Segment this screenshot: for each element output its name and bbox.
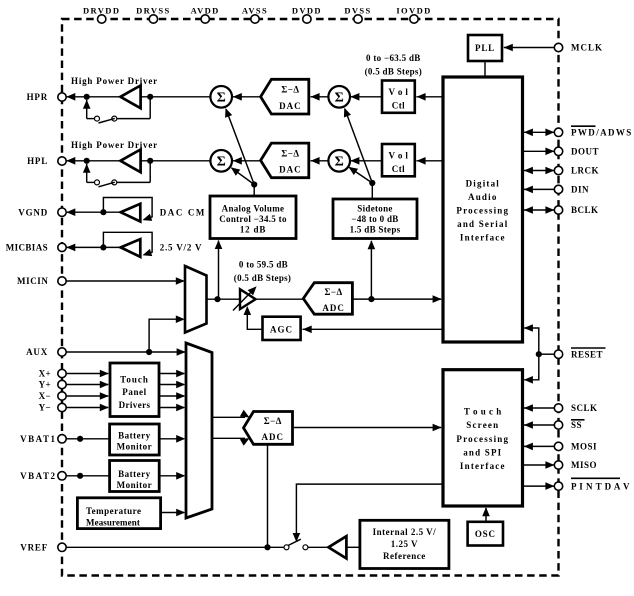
pin MCLK: [554, 43, 603, 53]
wire digital block to Vol Ctl 2: [416, 157, 443, 165]
wire VBAT1 to battery monitor 1: [62, 436, 110, 442]
wire audio ADC output to digital block: [352, 295, 441, 303]
svg-text:Y−: Y−: [39, 403, 51, 413]
svg-text:12 dB: 12 dB: [240, 225, 266, 235]
wire summer S2R to DAC2: [310, 157, 328, 165]
svg-text:Temperature: Temperature: [86, 506, 142, 516]
box Vol Ctl 2: [382, 144, 415, 176]
pin DRVSS: [136, 6, 171, 24]
box AGC: [263, 317, 301, 340]
wire mic path to analog volume control: [215, 240, 223, 299]
wire PGA output to audio ADC: [256, 298, 304, 300]
buffer VREF: [328, 536, 346, 558]
box touch panel drivers: [110, 363, 159, 417]
buffer DAC CM: [121, 204, 206, 222]
summer S1L: [210, 86, 232, 108]
svg-text:Σ−Δ: Σ−Δ: [281, 85, 299, 95]
svg-text:2.5 V/2 V: 2.5 V/2 V: [160, 243, 203, 253]
summer S2R: [328, 150, 350, 172]
svg-text:SS: SS: [571, 420, 582, 430]
svg-text:HPL: HPL: [27, 156, 48, 166]
svg-text:Ctl: Ctl: [392, 164, 405, 174]
pin Y+: [39, 380, 67, 390]
switch SW3 reference select: [284, 539, 328, 550]
svg-text:MOSI: MOSI: [571, 442, 597, 452]
pin DIN: [554, 185, 589, 195]
svg-text:DRVDD: DRVDD: [83, 6, 120, 16]
svg-text:Reference: Reference: [383, 551, 426, 561]
wire MICIN to mic mux: [62, 277, 185, 285]
mux mic input: [185, 266, 207, 333]
wire digital block to Vol Ctl 1: [416, 93, 443, 101]
pin SCLK: [554, 403, 597, 413]
amplifier high power driver HPR: [71, 76, 158, 108]
wire AGC gain control to PGA: [244, 306, 263, 329]
amplifier PGA mic: [233, 260, 291, 311]
box sidetone: [333, 199, 417, 239]
svg-text:AVSS: AVSS: [242, 6, 268, 16]
box Vol Ctl 1: [382, 81, 415, 113]
sigma-delta ADC audio: [303, 283, 352, 315]
wire digital block to AGC: [303, 326, 444, 334]
pin HPL: [27, 156, 66, 166]
svg-text:Audio: Audio: [468, 192, 498, 202]
svg-text:VREF: VREF: [20, 543, 48, 553]
sigma-delta ADC touch: [244, 412, 293, 445]
svg-text:and SPI: and SPI: [463, 447, 502, 457]
wire X+ to touch panel drivers: [62, 370, 109, 378]
wire AUX net: [62, 348, 186, 356]
svg-text:Battery: Battery: [118, 469, 151, 479]
svg-text:Ctl: Ctl: [392, 100, 405, 110]
wire HPR output net: [66, 93, 210, 101]
svg-text:Σ−Δ: Σ−Δ: [281, 148, 299, 158]
box battery monitor 2: [110, 461, 160, 492]
wire mic mux output to PGA: [207, 296, 241, 302]
pin AUX: [26, 347, 66, 357]
svg-text:SCLK: SCLK: [571, 403, 598, 413]
svg-text:Processing: Processing: [456, 434, 509, 444]
svg-text:RESET: RESET: [571, 349, 603, 359]
wire PINTDAV net: [523, 482, 555, 490]
svg-text:Digital: Digital: [466, 179, 500, 189]
pin PINTDAV: [554, 478, 630, 491]
label DAC volume range: [365, 53, 422, 77]
wire X- to touch panel drivers: [62, 392, 109, 400]
svg-text:DAC: DAC: [279, 101, 302, 111]
svg-text:Interface: Interface: [460, 233, 506, 243]
wire HPR shorting switch SW1 net: [83, 97, 150, 123]
svg-text:Screen: Screen: [466, 420, 499, 430]
svg-text:Σ−Δ: Σ−Δ: [264, 416, 282, 426]
wire touch panel drivers output Y+ to mux: [159, 381, 185, 389]
svg-text:VGND: VGND: [18, 207, 48, 217]
svg-text:AGC: AGC: [270, 324, 293, 334]
buffer 2.5V/2V: [121, 239, 203, 257]
pin VBAT2: [20, 471, 66, 481]
svg-text:0 to −63.5 dB: 0 to −63.5 dB: [366, 53, 421, 63]
wire OSC to touch block: [482, 507, 490, 522]
pin IOVDD: [396, 6, 431, 24]
wire DIN net: [523, 186, 555, 194]
wire VGND net: [66, 208, 121, 216]
svg-text:OSC: OSC: [475, 529, 496, 539]
pin BCLK: [554, 205, 598, 215]
svg-text:Control −34.5 to: Control −34.5 to: [219, 214, 287, 224]
pin AVSS: [242, 6, 268, 24]
box battery monitor 1: [110, 424, 160, 455]
svg-text:MISO: MISO: [571, 460, 597, 470]
wire LRCK net: [523, 167, 555, 175]
pin RESET: [554, 348, 605, 359]
svg-text:DRVSS: DRVSS: [136, 6, 171, 16]
wire VREF net: [62, 546, 284, 548]
svg-text:Measurement: Measurement: [86, 517, 140, 527]
pin MICBIAS: [6, 243, 67, 253]
mux touch input: [186, 343, 212, 518]
wire summer S1R to DAC1: [310, 93, 328, 101]
summer S1R: [328, 86, 350, 108]
svg-text:VBAT1: VBAT1: [20, 434, 56, 444]
svg-text:DIN: DIN: [571, 185, 589, 195]
wire MISO net: [523, 461, 555, 469]
svg-text:(0.5 dB Steps): (0.5 dB Steps): [365, 67, 422, 77]
wire Vol Ctl 1 to summer S1R: [350, 93, 382, 101]
wire touch ADC output to touch block: [293, 424, 442, 432]
pin HPR: [27, 92, 67, 102]
wire touch mux to ADC upper: [212, 410, 250, 418]
svg-text:MICIN: MICIN: [17, 276, 49, 286]
box internal reference: [360, 520, 449, 568]
svg-text:Σ: Σ: [217, 90, 226, 105]
pin Y-: [39, 403, 67, 413]
wire MOSI net: [523, 443, 555, 451]
sigma-delta DAC 1: [261, 79, 309, 114]
svg-text:Drivers: Drivers: [119, 400, 151, 410]
block digital audio processing and serial interface: [443, 77, 523, 342]
pin DOUT: [554, 147, 599, 157]
wire touch panel drivers output X- to mux: [159, 392, 185, 400]
svg-text:AUX: AUX: [26, 347, 48, 357]
svg-text:DAC: DAC: [279, 165, 302, 175]
svg-text:1.25 V: 1.25 V: [391, 539, 418, 549]
box OSC: [468, 522, 503, 546]
wire HPL shorting switch SW2 net: [83, 161, 150, 187]
svg-text:1.5 dB Steps: 1.5 dB Steps: [350, 225, 401, 235]
wire 2.5V/2V feedback loop: [103, 232, 152, 256]
pin PWD/ADWS: [554, 126, 632, 137]
pin X-: [39, 391, 67, 401]
wire battery monitor 2 to mux: [159, 472, 185, 480]
svg-text:Monitor: Monitor: [117, 442, 153, 452]
svg-text:BCLK: BCLK: [571, 205, 599, 215]
svg-text:Interface: Interface: [460, 461, 506, 471]
wire DAC1 to summer S1L: [233, 93, 261, 101]
wire PWD/ADWS net: [523, 129, 555, 137]
pin VGND: [18, 207, 66, 217]
svg-text:Sidetone: Sidetone: [357, 203, 392, 213]
svg-text:Battery: Battery: [118, 430, 151, 440]
pin SS: [554, 420, 584, 430]
pin VREF: [20, 543, 66, 553]
sigma-delta DAC 2: [261, 143, 309, 178]
wire touch panel drivers output X+ to mux: [159, 370, 185, 378]
svg-text:0 to 59.5 dB: 0 to 59.5 dB: [239, 260, 288, 270]
pin X+: [39, 369, 67, 379]
wire DOUT net: [523, 148, 555, 156]
svg-text:(0.5 dB Steps): (0.5 dB Steps): [234, 273, 291, 283]
svg-text:DVDD: DVDD: [292, 6, 322, 16]
wire SCLK net: [523, 404, 555, 412]
svg-text:Touch: Touch: [120, 374, 149, 384]
svg-text:PLL: PLL: [475, 43, 495, 53]
svg-text:Σ: Σ: [335, 154, 344, 169]
pin DRVDD: [83, 6, 120, 24]
box PLL: [468, 35, 502, 61]
wire temperature measurement to mux: [161, 509, 186, 517]
pin DVDD: [292, 6, 322, 24]
wire BCLK net: [523, 206, 555, 214]
svg-text:HPR: HPR: [27, 92, 48, 102]
svg-text:PWD/ADWS: PWD/ADWS: [571, 128, 633, 138]
wire touch ADC reference tap: [264, 444, 270, 550]
svg-text:T o u c h: T o u c h: [464, 407, 502, 417]
wire battery monitor 1 to mux: [159, 435, 185, 443]
wire MCLK to PLL: [504, 44, 555, 52]
svg-text:High Power Driver: High Power Driver: [71, 140, 158, 150]
svg-text:VBAT2: VBAT2: [20, 471, 56, 481]
wire Y+ to touch panel drivers: [62, 381, 109, 389]
wire PLL to digital block: [484, 61, 486, 77]
svg-text:Analog Volume: Analog Volume: [222, 203, 285, 213]
svg-text:High Power Driver: High Power Driver: [71, 76, 158, 86]
chip boundary dashed border: [62, 19, 559, 576]
wire HPL output net: [66, 157, 210, 165]
pin LRCK: [554, 166, 599, 176]
wire AUX branch to mic mux: [149, 315, 185, 352]
wire SS net: [523, 421, 555, 429]
wire RESET net: [524, 324, 554, 383]
svg-text:V o l: V o l: [388, 151, 408, 161]
svg-text:−48 to 0 dB: −48 to 0 dB: [351, 214, 398, 224]
svg-text:Panel: Panel: [122, 387, 147, 397]
svg-text:MICBIAS: MICBIAS: [6, 243, 48, 253]
svg-text:DAC CM: DAC CM: [160, 208, 206, 218]
wire VBAT2 to battery monitor 2: [62, 473, 110, 479]
amplifier high power driver HPL: [71, 140, 158, 172]
pin VBAT1: [20, 434, 66, 444]
svg-text:MCLK: MCLK: [571, 43, 603, 53]
svg-text:Y+: Y+: [39, 380, 51, 390]
svg-text:and Serial: and Serial: [457, 219, 508, 229]
svg-text:X−: X−: [39, 391, 51, 401]
box temperature measurement: [77, 498, 160, 529]
svg-text:Internal 2.5 V/: Internal 2.5 V/: [373, 527, 437, 537]
summer S2L: [210, 150, 232, 172]
svg-text:ADC: ADC: [262, 432, 285, 442]
wire sidetone input from ADC output: [368, 240, 376, 299]
block touch screen processing and SPI interface: [443, 370, 523, 506]
wire Y- to touch panel drivers: [62, 404, 109, 412]
wire DAC2 to summer S2L: [233, 157, 261, 165]
wire reference buffer to internal reference: [346, 546, 360, 548]
svg-text:Σ−Δ: Σ−Δ: [325, 287, 343, 297]
pin MISO: [554, 460, 597, 470]
svg-text:DOUT: DOUT: [571, 147, 599, 157]
wire MICBIAS net: [66, 244, 121, 252]
pin AVDD: [191, 6, 220, 24]
box analog volume control: [210, 196, 296, 239]
svg-text:Monitor: Monitor: [117, 480, 153, 490]
svg-text:Σ: Σ: [335, 90, 344, 105]
wire reference enable from touch block: [293, 484, 443, 542]
svg-text:DVSS: DVSS: [344, 6, 371, 16]
node analog volume control tap: [225, 108, 257, 196]
pin DVSS: [344, 6, 371, 24]
svg-text:Σ: Σ: [217, 154, 226, 169]
pin MOSI: [554, 442, 597, 452]
svg-text:AVDD: AVDD: [191, 6, 220, 16]
wire touch panel drivers output Y- to mux: [159, 404, 185, 412]
svg-text:Processing: Processing: [456, 206, 509, 216]
svg-text:ADC: ADC: [322, 303, 345, 313]
node sidetone tap: [344, 108, 376, 199]
svg-text:X+: X+: [39, 369, 51, 379]
wire Vol Ctl 2 to summer S2R: [350, 157, 382, 165]
svg-text:IOVDD: IOVDD: [396, 6, 431, 16]
wire DAC CM feedback loop: [103, 198, 152, 221]
wire touch mux to ADC lower: [212, 438, 250, 446]
svg-text:LRCK: LRCK: [571, 166, 599, 176]
svg-text:V o l: V o l: [388, 87, 408, 97]
pin MICIN: [17, 276, 66, 286]
svg-text:P I N T D A V: P I N T D A V: [571, 481, 630, 491]
